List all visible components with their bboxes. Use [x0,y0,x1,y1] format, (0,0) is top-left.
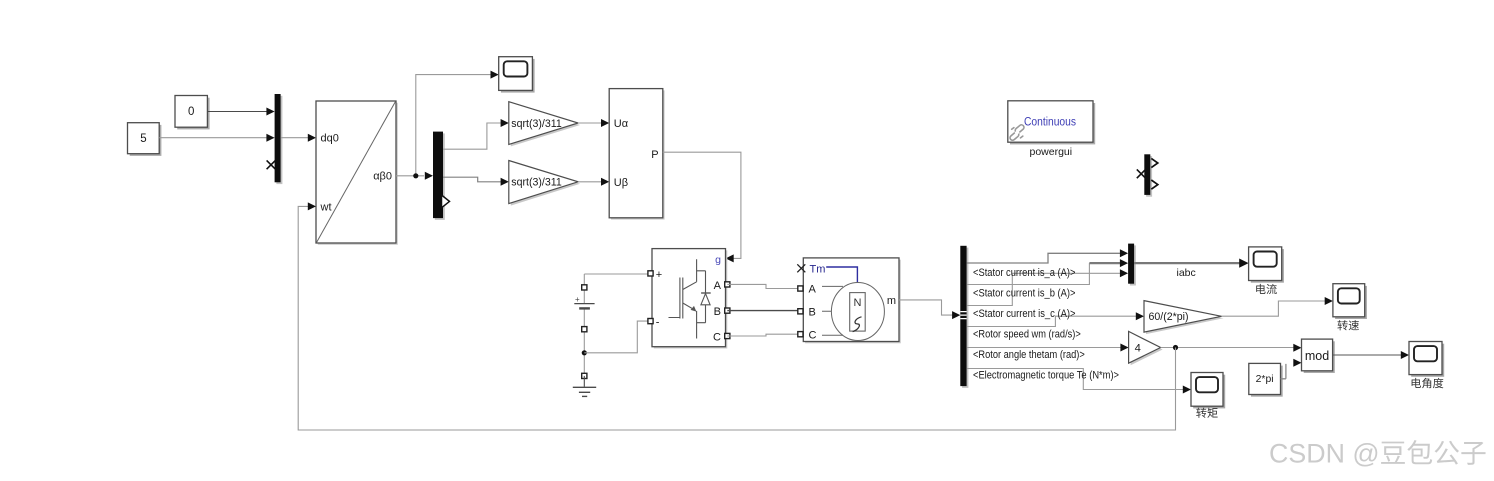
unconnected input X on Mux1 [267,160,276,169]
DC voltage source battery [583,274,585,303]
gain sqrt(3)/311 upper [511,104,580,147]
constant 2*pi [1251,366,1283,397]
wire Demux2 out2 to Gain sqrt2 [443,177,501,182]
svg-text:4: 4 [1135,343,1141,355]
svg-text:Continuous: Continuous [1024,116,1076,128]
constant block Const5 value 5 [130,125,162,156]
svg-text:powergui: powergui [1029,146,1072,158]
wire 2*pi toward mod second input [1281,364,1286,379]
svg-text:sqrt(3)/311: sqrt(3)/311 [511,177,562,189]
svg-text:<Stator current is_c (A)>: <Stator current is_c (A)> [973,308,1076,320]
svg-text:<Rotor speed wm (rad/s)>: <Rotor speed wm (rad/s)> [973,329,1081,341]
unconnected output chevrons of Demux4 [1151,158,1158,167]
Tm internal line [826,267,857,283]
gain sqrt(3)/311 lower [511,163,580,206]
svg-text:Uα: Uα [614,118,629,130]
scope Current [1251,249,1284,283]
wire inverter A to motor A [727,284,798,288]
wire P output to inverter gate g [663,152,741,258]
svg-text:0: 0 [188,106,194,118]
demux Demux2 [435,133,445,220]
battery - terminal port [582,327,587,332]
motor B port [798,309,803,314]
svg-text:wt: wt [320,201,332,213]
svg-text:B: B [714,306,721,318]
wire bus out is_a to Mux3 [967,253,1121,263]
powergui broken-link icon [1009,124,1025,141]
svg-text:B: B [809,307,816,319]
svg-text:m: m [887,295,896,307]
wire battery bottom to inverter - [584,321,648,353]
wire motor m output to Bus Selector [899,300,953,315]
wire gain 4 to mod with junction [1161,347,1294,349]
block PWM generator Ualpha Ubeta to P [611,90,665,219]
svg-text:+: + [575,295,580,304]
wire Gain sqrt1 to Ualpha [578,122,602,124]
scope Torque [1193,375,1225,409]
gain 4 [1131,333,1163,365]
ground port [582,373,587,378]
svg-text:+: + [656,269,662,281]
inverter A port [725,282,730,287]
wire inverter C to motor C [727,334,798,336]
motor A port [798,286,803,291]
svg-text:sqrt(3)/311: sqrt(3)/311 [511,118,562,130]
wire mod to scope Electrical angle [1333,354,1402,356]
inverter - port [648,319,653,324]
wire bus out is_c to Mux3 [967,273,1121,305]
svg-text:αβ0: αβ0 [373,171,392,183]
bus selector bar [962,248,968,388]
feedback wire junction to wt input [298,206,1175,430]
svg-text:A: A [809,284,817,296]
constant block Const0 value 0 [177,98,209,130]
svg-text:5: 5 [140,133,146,145]
wire bus out is_b to Mux3 [967,263,1090,284]
svg-text:C: C [713,331,721,343]
svg-text:<Stator current is_a (A)>: <Stator current is_a (A)> [973,267,1076,279]
svg-text:iabc: iabc [1177,267,1196,279]
wire Const5 to Mux1 [159,137,267,139]
unconnected input X on Demux4 [1137,169,1146,178]
junction node on alpha-beta0 wire [413,173,418,178]
svg-text:<Electromagnetic torque Te (N*: <Electromagnetic torque Te (N*m)> [973,369,1119,381]
block mod [1304,341,1335,373]
svg-text:mod: mod [1305,349,1329,363]
svg-text:g: g [715,254,721,266]
battery + terminal port [582,285,587,290]
svg-text:<Stator current is_b (A)>: <Stator current is_b (A)> [973,288,1076,300]
scope Speed label (zhuansu) [1337,320,1347,330]
scope Current label (dianliu) [1256,284,1265,294]
svg-text:-: - [656,316,660,328]
inverter C port [725,333,730,338]
scope Electrical angle label (dianjiaodu) [1412,378,1421,388]
mux Mux3 iabc [1130,245,1136,285]
junction node battery bottom [582,350,587,355]
wire battery top to inverter + [584,273,648,275]
svg-text:N: N [854,297,862,309]
unconnected output chevron of Demux2 [442,195,450,208]
motor circle icon [831,283,884,341]
svg-text:<Rotor angle thetam (rad)>: <Rotor angle thetam (rad)> [973,349,1085,361]
powergui block [1010,103,1095,144]
wire gain 60/(2*pi) to scope Speed [1222,301,1326,316]
svg-text:dq0: dq0 [321,133,339,145]
wire alpha-beta0 output to Demux2 with junction [396,175,424,177]
IGBT with anti-parallel diode icon [669,259,711,338]
scope Electrical angle [1411,344,1444,377]
junction node after gain 4 [1173,345,1178,350]
scope Scope1 [501,59,535,93]
motor internal port stubs [822,286,843,335]
mux Mux1 [276,96,282,184]
svg-text:P: P [651,149,658,161]
svg-text:CSDN @: CSDN @ [1269,439,1380,469]
wire inverter B to motor B [727,310,798,312]
wire branch up to Scope1 [416,75,491,176]
unconnected Tm input X [797,264,805,272]
wire iabc Mux3 to scope Current [1134,262,1240,264]
svg-text:C: C [809,329,817,341]
motor C port [798,332,803,337]
ground symbol [583,376,585,387]
scope Speed [1335,286,1367,319]
gain 60/(2*pi) [1146,303,1224,335]
svg-text:Tm: Tm [810,264,826,276]
demux Demux4 unconnected [1146,156,1152,197]
svg-text:Uβ: Uβ [614,177,628,189]
svg-text:60/(2*pi): 60/(2*pi) [1149,311,1189,323]
wire bus out thetam to Gain 4 [967,347,1121,349]
svg-text:2*pi: 2*pi [1256,374,1274,385]
inverter B port [725,308,730,313]
inverter block Universal Bridge [654,250,728,348]
inverter + port [648,271,653,276]
wire Const0 to Mux1 [207,111,267,113]
wire Gain sqrt2 to Ubeta [578,181,602,183]
motor block PMSM [805,260,901,344]
scope Torque label (zhuanju) [1196,408,1206,418]
svg-text:A: A [714,280,722,292]
wire Mux1 to dq0 input [281,137,309,139]
wire Demux2 out1 to Gain sqrt1 [443,123,501,149]
block dq0 to alpha-beta-zero transform [318,103,398,245]
wire bus out Te to scope Torque [967,369,1184,390]
wire bus out wm to Gain 60/(2*pi) [967,316,1137,326]
